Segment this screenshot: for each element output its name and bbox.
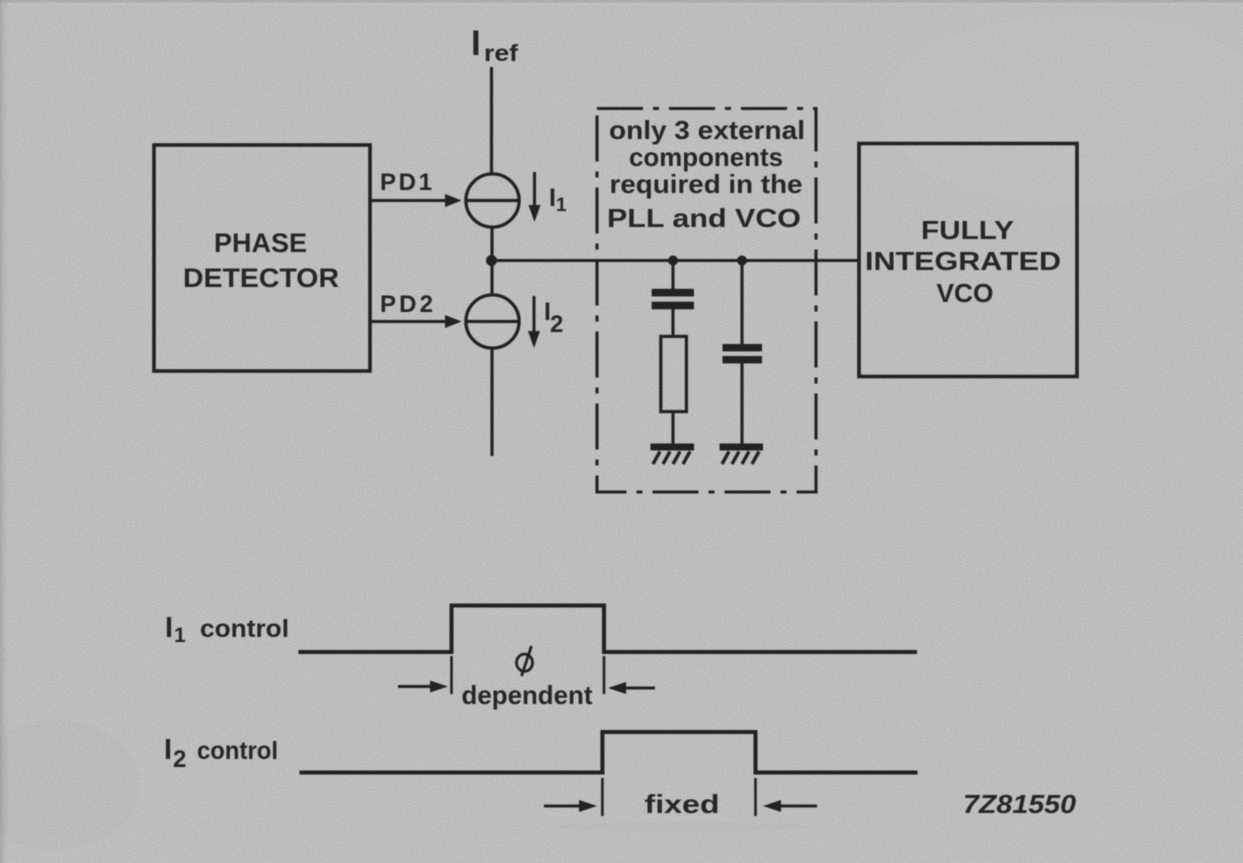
wire C2 branch top — [740, 261, 743, 345]
svg-text:PD1: PD1 — [380, 169, 432, 196]
svg-text:PD2: PD2 — [380, 291, 433, 318]
label I2 control — [164, 734, 278, 773]
svg-text:components: components — [629, 142, 783, 172]
wire main node to VCO — [492, 259, 860, 262]
current source I1 — [466, 174, 519, 227]
capacitor C2 plates — [723, 344, 763, 363]
svg-text:2: 2 — [173, 746, 186, 773]
svg-text:1: 1 — [174, 624, 186, 647]
dash-dot external components box — [597, 109, 816, 493]
label I1 — [549, 184, 567, 216]
svg-text:FULLY: FULLY — [921, 215, 1014, 245]
wire C1 branch top — [671, 261, 674, 290]
waveform I2 control — [300, 732, 918, 773]
node main junction — [486, 255, 497, 266]
svg-text:7Z81550: 7Z81550 — [963, 789, 1077, 819]
wire PD2 — [371, 320, 448, 323]
tick marks wave2 — [602, 778, 755, 816]
symbol phi — [517, 646, 533, 676]
svg-text:control: control — [197, 737, 278, 765]
wire C1 to R1 — [671, 309, 674, 337]
svg-text:required in the: required in the — [610, 169, 803, 199]
label FULLY INTEGRATED VCO — [865, 215, 1061, 308]
svg-text:I: I — [549, 184, 556, 212]
label I1 control — [165, 612, 289, 647]
arrow right wave2 — [544, 800, 597, 812]
waveform I1 control — [299, 606, 918, 653]
svg-text:only 3 external: only 3 external — [609, 115, 805, 145]
svg-text:INTEGRATED: INTEGRATED — [865, 246, 1061, 276]
svg-text:ref: ref — [484, 40, 518, 66]
wire between sources — [490, 227, 493, 295]
current source I2 — [466, 295, 519, 348]
svg-text:PHASE: PHASE — [214, 228, 307, 258]
wire PD1 — [371, 199, 448, 202]
arrow I1 current — [529, 172, 541, 222]
svg-text:control: control — [200, 615, 289, 643]
label PHASE DETECTOR — [183, 228, 339, 293]
arrowhead PD2 — [445, 315, 462, 328]
phase detector box — [154, 145, 370, 371]
svg-text:I: I — [471, 24, 481, 63]
wire below I2 — [490, 348, 493, 456]
arrow right wave1 — [398, 681, 448, 693]
ground GND1 — [651, 444, 695, 465]
resistor R1 — [661, 336, 687, 411]
label I2 — [544, 298, 563, 338]
label only 3 external components required in the PLL and VCO — [607, 115, 805, 233]
svg-text:1: 1 — [556, 195, 567, 216]
node C2 junction — [737, 256, 747, 266]
svg-text:PLL and VCO: PLL and VCO — [607, 203, 801, 233]
VCO box — [859, 144, 1077, 377]
svg-text:VCO: VCO — [937, 278, 994, 308]
arrow I2 current — [528, 296, 540, 348]
svg-text:DETECTOR: DETECTOR — [183, 263, 339, 293]
arrow left wave2 — [763, 800, 817, 812]
svg-text:dependent: dependent — [462, 680, 593, 710]
capacitor C1 plates — [652, 289, 694, 310]
wire C2 to ground — [740, 363, 743, 445]
arrow left wave1 — [608, 682, 655, 694]
wire Iref vertical — [490, 67, 493, 174]
tick marks wave1 — [452, 656, 605, 694]
svg-text:fixed: fixed — [645, 789, 720, 819]
svg-text:I: I — [165, 612, 173, 644]
label Iref — [471, 24, 518, 66]
node C1 junction — [668, 256, 678, 266]
wire R1 to ground — [671, 412, 674, 445]
svg-text:2: 2 — [550, 311, 563, 338]
ground GND2 — [720, 444, 764, 465]
svg-text:I: I — [164, 734, 172, 766]
arrowhead PD1 — [445, 194, 462, 207]
